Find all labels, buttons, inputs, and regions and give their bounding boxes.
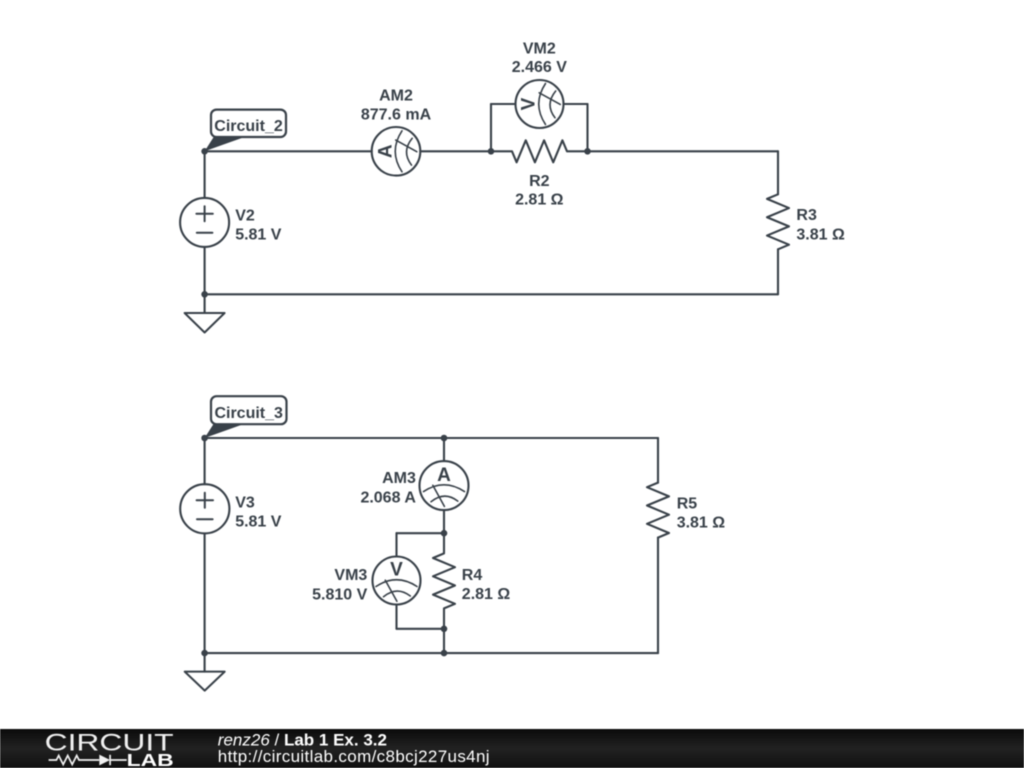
svg-text:Circuit_3: Circuit_3 <box>214 405 283 422</box>
wire right side down to R3 top <box>777 151 779 194</box>
svg-text:A: A <box>437 465 451 486</box>
ground circuit 2 <box>185 313 225 333</box>
footer bar <box>0 729 1024 768</box>
wire VM3 top vertical <box>395 533 397 556</box>
voltmeter VM2 <box>516 80 564 128</box>
wire R2 right node to right corner <box>588 150 779 152</box>
wire AM2 right to R2 left node <box>420 150 491 152</box>
wire V2 top lead <box>204 151 206 198</box>
node flag Circuit_2 <box>205 110 286 152</box>
svg-text:VM3: VM3 <box>334 567 367 584</box>
wire ground lead circuit 2 <box>204 294 206 313</box>
voltage source V2 <box>180 198 229 247</box>
svg-text:2.81 Ω: 2.81 Ω <box>515 192 564 209</box>
voltmeter VM3 <box>373 557 421 605</box>
resistor R5 <box>647 483 669 538</box>
wire V2 bottom lead <box>204 247 206 294</box>
svg-text:877.6 mA: 877.6 mA <box>361 107 432 124</box>
wire bottom rail circuit 2 <box>205 293 778 295</box>
wire R5 top lead <box>657 438 659 483</box>
svg-text:R3: R3 <box>796 207 817 224</box>
wire V3 bottom lead <box>204 533 206 653</box>
wire V3 top lead <box>204 438 206 484</box>
svg-text:3.81 Ω: 3.81 Ω <box>796 226 845 243</box>
wire VM2 left vertical <box>490 104 492 151</box>
node junction dot circuit 3 top-left <box>201 435 208 442</box>
wire VM3 bottom horizontal <box>397 628 445 630</box>
svg-text:http://circuitlab.com/c8bcj227: http://circuitlab.com/c8bcj227us4nj <box>218 747 490 766</box>
node junction dot R2 left <box>488 148 495 155</box>
wire VM2 left horizontal <box>491 103 516 105</box>
wire VM2 right vertical <box>586 104 588 151</box>
node junction dot circuit 2 ground <box>201 291 208 298</box>
wire top rail circuit 2 left segment <box>205 150 372 152</box>
svg-text:2.466 V: 2.466 V <box>512 59 567 76</box>
logo schematic: resistor zigzag, wire, diode <box>49 755 127 765</box>
ammeter AM2 <box>372 127 421 176</box>
wire R3 bottom to bottom rail <box>777 249 779 294</box>
svg-text:5.81 V: 5.81 V <box>235 513 282 530</box>
wire R4 bottom to rail <box>443 629 445 653</box>
svg-text:3.81 Ω: 3.81 Ω <box>677 515 726 532</box>
wire AM3 top lead <box>443 438 445 461</box>
svg-text:V: V <box>390 560 403 581</box>
svg-text:VM2: VM2 <box>523 40 556 57</box>
resistor R4 <box>433 533 455 629</box>
voltage source V3 <box>180 484 229 533</box>
wire top rail circuit 3 <box>205 437 658 439</box>
svg-text:V3: V3 <box>235 494 255 511</box>
node junction dot R4 bottom <box>441 626 448 633</box>
svg-text:2.068 A: 2.068 A <box>360 489 416 506</box>
svg-text:5.810 V: 5.810 V <box>312 586 367 603</box>
node junction dot AM3 bottom <box>441 530 448 537</box>
wire VM2 right horizontal <box>564 103 588 105</box>
node junction dot circuit 3 ground <box>201 650 208 657</box>
svg-text:2.81 Ω: 2.81 Ω <box>462 586 511 603</box>
svg-text:A: A <box>376 144 397 158</box>
svg-text:V: V <box>519 97 540 110</box>
wire AM3 bottom lead <box>443 510 445 533</box>
ground circuit 3 <box>185 672 225 691</box>
svg-text:V2: V2 <box>235 208 255 225</box>
svg-text:AM2: AM2 <box>379 87 413 104</box>
svg-text:AM3: AM3 <box>382 470 416 487</box>
wire R5 bottom lead <box>657 538 659 654</box>
wire VM3 bottom vertical <box>395 605 397 629</box>
svg-text:R4: R4 <box>462 567 483 584</box>
node junction dot R2 right <box>584 148 591 155</box>
svg-text:Circuit_2: Circuit_2 <box>214 118 283 135</box>
ammeter AM3 <box>420 461 469 510</box>
node junction dot circuit 2 top-left <box>201 148 208 155</box>
logo diode triangle <box>99 755 110 766</box>
node junction dot AM3 top <box>441 435 448 442</box>
node junction dot bottom rail <box>441 650 448 657</box>
wire ground lead circuit 3 <box>204 653 206 672</box>
svg-text:R2: R2 <box>529 173 550 190</box>
svg-text:LAB: LAB <box>127 750 174 768</box>
resistor R3 <box>767 194 789 249</box>
svg-text:R5: R5 <box>677 496 698 513</box>
wire bottom rail circuit 3 <box>205 652 658 654</box>
svg-text:5.81 V: 5.81 V <box>235 227 282 244</box>
node flag Circuit_3 <box>205 396 287 438</box>
resistor R2 <box>491 140 588 162</box>
wire VM3 top horizontal <box>397 532 445 534</box>
